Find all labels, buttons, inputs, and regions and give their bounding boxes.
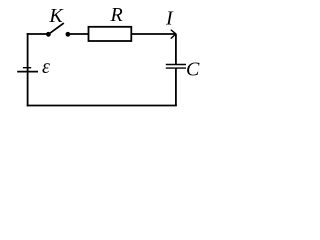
svg-text:R: R (110, 4, 123, 26)
svg-text:I: I (165, 7, 174, 29)
svg-text:C: C (186, 59, 200, 81)
svg-text:ε: ε (42, 56, 50, 78)
svg-text:K: K (48, 5, 64, 27)
